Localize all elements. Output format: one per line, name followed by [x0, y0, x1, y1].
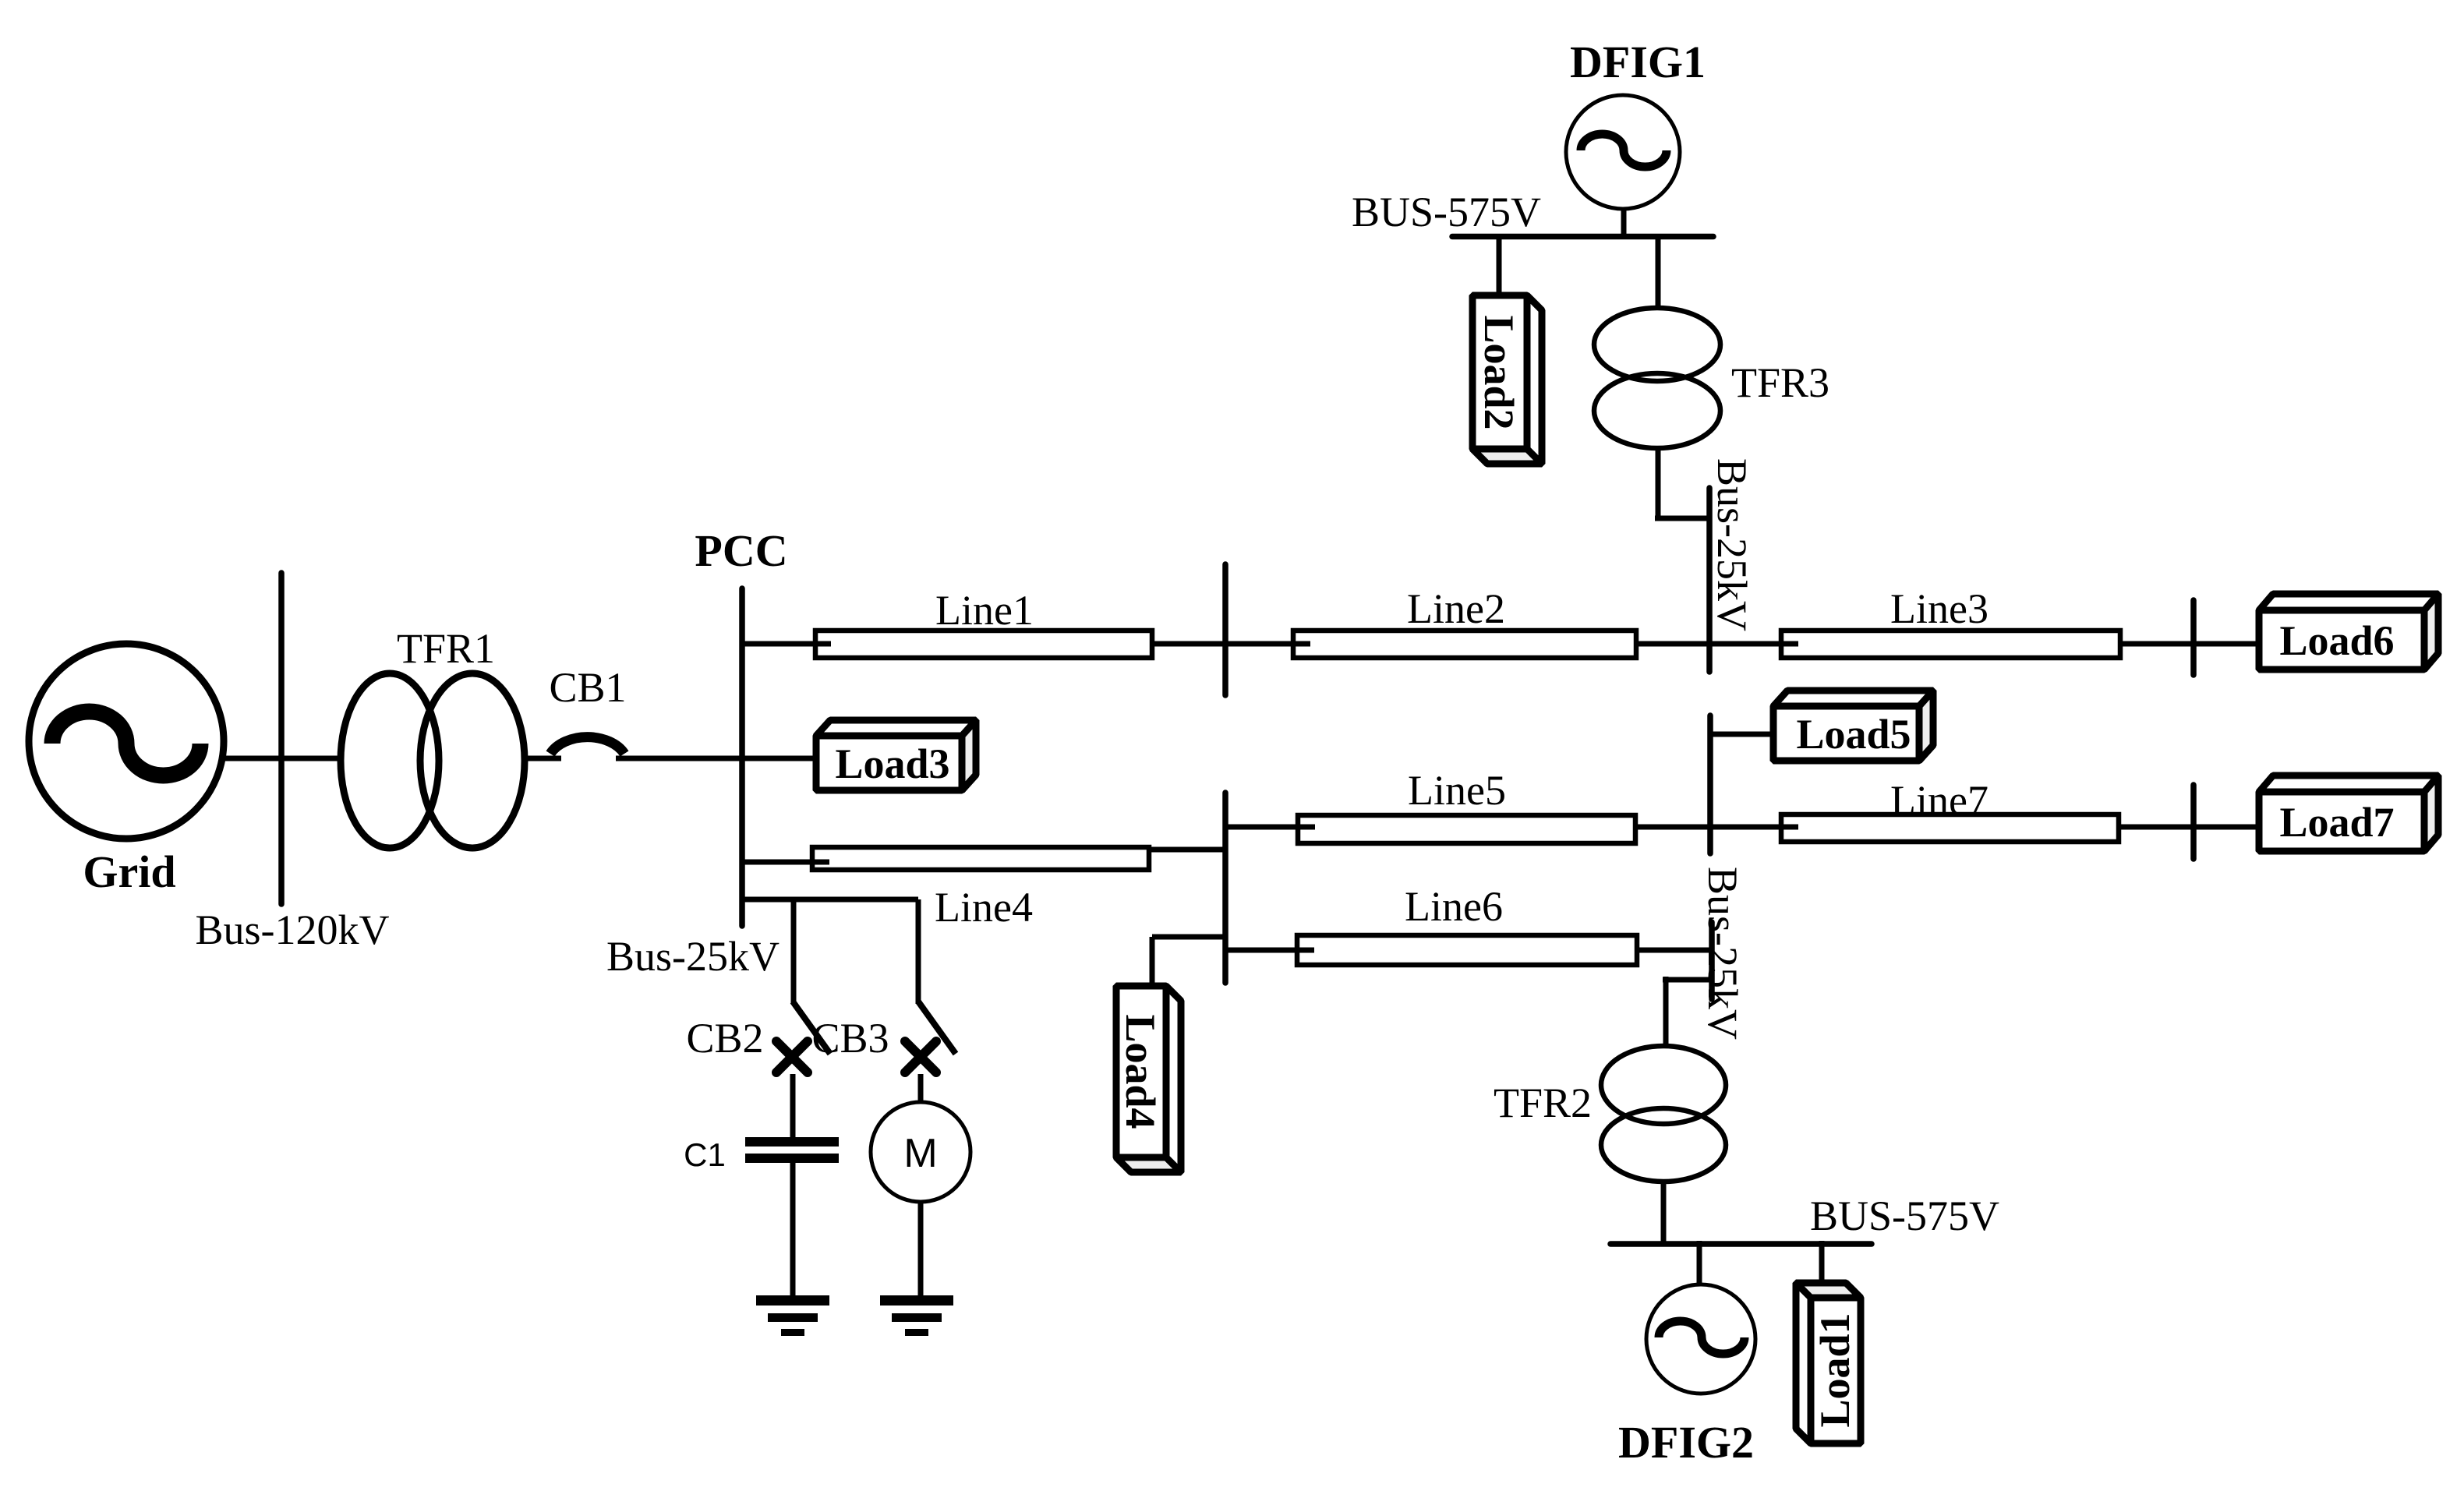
svg-text:C1: C1	[684, 1136, 726, 1173]
svg-text:CB2: CB2	[686, 1015, 763, 1062]
svg-text:M: M	[903, 1131, 937, 1176]
svg-text:Bus-120kV: Bus-120kV	[195, 906, 389, 953]
svg-text:Load6: Load6	[2279, 617, 2394, 664]
svg-text:PCC: PCC	[695, 525, 787, 576]
svg-text:Load7: Load7	[2279, 799, 2394, 846]
svg-text:TFR1: TFR1	[397, 625, 495, 672]
svg-text:Line5: Line5	[1408, 767, 1506, 814]
svg-text:CB3: CB3	[811, 1015, 889, 1062]
svg-text:DFIG1: DFIG1	[1570, 37, 1706, 87]
svg-text:Bus-25kV: Bus-25kV	[1699, 867, 1746, 1040]
svg-text:Bus-25kV: Bus-25kV	[606, 933, 780, 980]
svg-text:Line6: Line6	[1405, 883, 1503, 930]
svg-text:Line2: Line2	[1407, 585, 1505, 632]
svg-text:BUS-575V: BUS-575V	[1810, 1192, 1999, 1239]
svg-text:TFR3: TFR3	[1731, 359, 1829, 406]
svg-text:Bus-25kV: Bus-25kV	[1709, 458, 1755, 631]
svg-text:DFIG2: DFIG2	[1618, 1417, 1754, 1468]
svg-text:Grid: Grid	[83, 846, 175, 897]
svg-text:CB1: CB1	[549, 664, 626, 711]
svg-text:Load4: Load4	[1117, 1014, 1164, 1129]
svg-text:Load1: Load1	[1812, 1313, 1858, 1427]
svg-text:Load3: Load3	[835, 740, 949, 787]
svg-text:Line1: Line1	[935, 587, 1034, 634]
svg-text:Line7: Line7	[1890, 777, 1989, 824]
svg-text:Line4: Line4	[935, 884, 1033, 931]
svg-text:Line3: Line3	[1890, 585, 1989, 632]
svg-text:TFR2: TFR2	[1494, 1079, 1592, 1126]
svg-text:BUS-575V: BUS-575V	[1352, 189, 1541, 235]
svg-text:Load5: Load5	[1796, 711, 1911, 758]
svg-text:Load2: Load2	[1476, 315, 1522, 429]
